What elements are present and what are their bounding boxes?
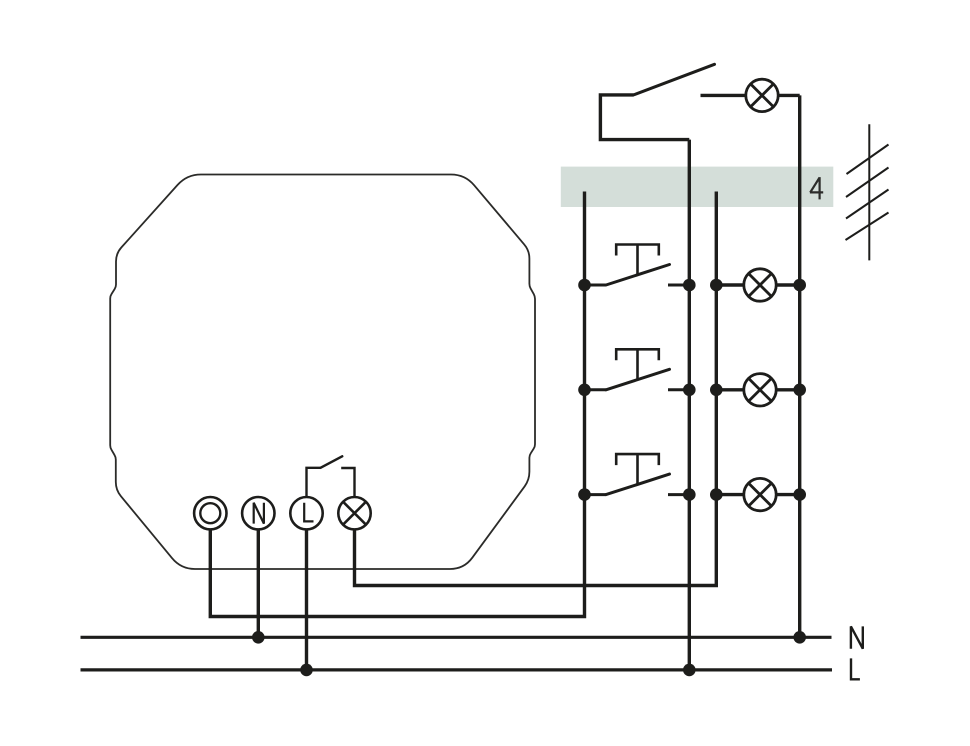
row 2 feed wire <box>716 388 799 391</box>
push-button S3 blade <box>606 474 670 495</box>
push-button S1 contact stub right <box>668 284 689 287</box>
push-button S3 contact stub right <box>668 493 689 496</box>
internal relay contact <box>307 468 321 497</box>
row 3 feed wire <box>716 493 799 496</box>
wire col4 (lamp return) <box>798 95 801 637</box>
terminal L <box>290 497 322 529</box>
push-button S2 contact stub right <box>668 388 689 391</box>
push-button S1 blade <box>606 265 670 286</box>
junction col2 / L rail <box>683 664 696 677</box>
junction dots row 3 <box>578 488 591 501</box>
flush-mount box outline <box>110 175 535 570</box>
wire output terminal to switch bus (col1) <box>210 192 584 617</box>
row 1 feed wire <box>716 283 799 286</box>
push-button S2 contact stub left <box>585 388 607 391</box>
junction col4 / N rail <box>793 631 806 644</box>
wire N terminal to N rail <box>257 529 260 637</box>
terminal output (double circle) <box>194 497 226 529</box>
wire S4 to lamp E4 <box>701 94 800 97</box>
push-button S1 contact stub left <box>585 284 607 287</box>
wire lamp-output terminal to lamp feed (col3) <box>355 192 717 586</box>
junction dots row 2 <box>578 384 591 397</box>
lamp E1 <box>744 269 776 301</box>
lamp E3 <box>744 478 776 510</box>
junction L terminal / L rail <box>300 664 313 677</box>
wire col2 (switch return) <box>688 140 691 670</box>
label N <box>851 626 863 648</box>
junction dots row 1 <box>578 279 591 292</box>
N rail <box>81 636 832 639</box>
terminal lamp output (crossed circle) <box>338 497 370 529</box>
lamp E2 <box>744 374 776 406</box>
push-button S3 actuator <box>616 454 659 465</box>
push-button S3 contact stub left <box>585 493 607 496</box>
switch S4 blade <box>634 64 715 95</box>
switch S4 (top) <box>600 95 689 140</box>
wire L terminal to L rail <box>305 529 308 670</box>
push-button S2 actuator <box>616 349 659 360</box>
ceiling band (floor marker) <box>561 167 834 207</box>
label L <box>850 658 860 680</box>
wall hatching <box>846 124 889 260</box>
label 4 (floor number) <box>810 177 823 199</box>
push-button S2 blade <box>606 369 670 390</box>
L rail <box>81 668 833 671</box>
terminal N <box>242 497 274 529</box>
push-button S1 actuator <box>616 245 659 256</box>
junction N terminal / N rail <box>252 631 265 644</box>
lamp E4 <box>746 79 778 111</box>
